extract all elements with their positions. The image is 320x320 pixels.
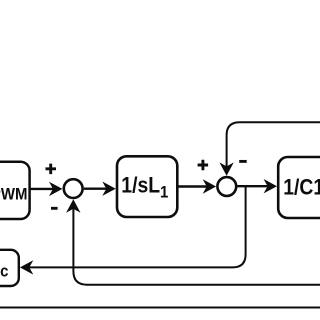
svg-text:1/C1: 1/C1 (283, 175, 320, 199)
